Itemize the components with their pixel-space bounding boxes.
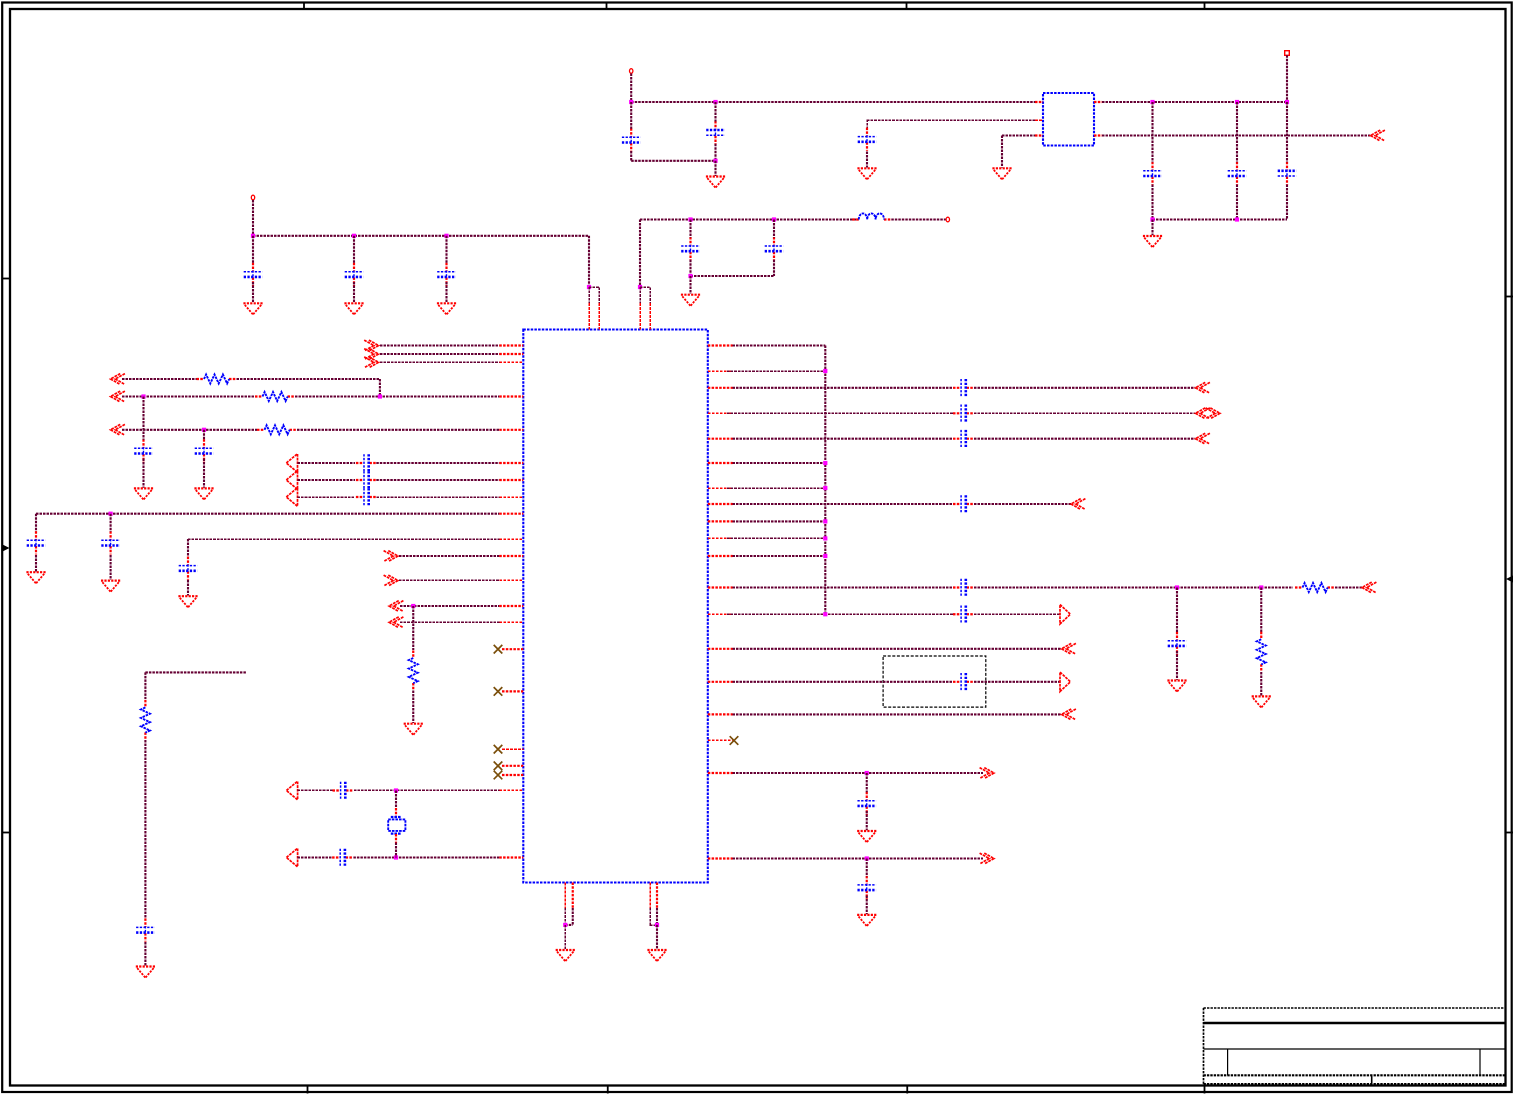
wire xyxy=(727,537,825,539)
pin U1 xyxy=(708,772,733,774)
wire xyxy=(1002,134,1035,136)
wire xyxy=(866,811,868,830)
ground xyxy=(26,571,45,573)
wire xyxy=(295,395,499,397)
wire xyxy=(689,276,691,294)
wire xyxy=(122,378,197,380)
ground xyxy=(556,949,575,951)
wire xyxy=(565,924,573,926)
wire xyxy=(1286,55,1288,102)
junction xyxy=(655,923,659,927)
wire xyxy=(974,613,1060,615)
wire xyxy=(35,555,37,572)
annotation box xyxy=(883,656,986,707)
wire xyxy=(866,896,868,915)
wire xyxy=(380,361,499,363)
no-connect xyxy=(494,762,503,771)
capacitor C31 xyxy=(866,876,868,885)
pin U1 xyxy=(708,503,733,505)
wire xyxy=(379,379,381,397)
junction xyxy=(109,512,113,516)
pin U1 xyxy=(598,303,600,329)
off-page connector xyxy=(1210,408,1220,419)
ground xyxy=(437,302,456,304)
wire xyxy=(866,120,868,130)
wire xyxy=(188,538,499,540)
ground xyxy=(344,302,363,304)
wire xyxy=(588,236,590,287)
capacitor C23 xyxy=(953,412,961,414)
wire xyxy=(297,429,499,431)
wire xyxy=(142,459,144,488)
wire xyxy=(187,580,189,596)
wire xyxy=(298,856,333,858)
junction xyxy=(444,234,448,238)
wire xyxy=(639,220,641,288)
pin U2.1 xyxy=(1035,101,1043,103)
wire xyxy=(400,605,499,607)
ground xyxy=(1252,695,1271,697)
pin U2.3 xyxy=(1035,134,1043,136)
capacitor C4 xyxy=(689,237,691,246)
junction xyxy=(823,369,827,373)
junction xyxy=(1285,100,1289,104)
wire xyxy=(399,555,499,557)
wire xyxy=(733,586,954,588)
pin U1 xyxy=(708,462,733,464)
wire xyxy=(727,487,825,489)
wire xyxy=(298,496,356,498)
junction xyxy=(352,234,356,238)
wire xyxy=(564,908,566,925)
wire xyxy=(144,672,146,699)
wire xyxy=(1001,136,1003,168)
wire xyxy=(380,344,499,346)
pin U1 xyxy=(499,605,523,607)
wire xyxy=(588,287,590,303)
off-page connector xyxy=(1196,408,1206,419)
junction xyxy=(823,519,827,523)
wire xyxy=(36,513,499,515)
off-page connector xyxy=(1371,130,1381,141)
wire xyxy=(733,555,826,557)
junction xyxy=(411,604,415,608)
wire xyxy=(395,843,397,858)
off-page connector xyxy=(286,454,297,473)
pin U1 xyxy=(499,462,523,464)
off-page connector xyxy=(1062,643,1072,654)
wire xyxy=(1153,218,1288,220)
capacitor C22 xyxy=(953,387,961,389)
pin U1 xyxy=(502,690,523,692)
pin U1 xyxy=(708,739,733,741)
wire xyxy=(727,370,825,372)
inductor L1 xyxy=(852,218,859,220)
pin U1 xyxy=(708,586,733,588)
off-page connector xyxy=(389,601,399,612)
pin U1 xyxy=(708,681,733,683)
wire xyxy=(733,520,826,522)
resistor R7 xyxy=(144,700,146,708)
ground xyxy=(404,723,423,725)
junction xyxy=(251,234,255,238)
off-page connector xyxy=(984,853,994,864)
wire xyxy=(733,681,954,683)
wire xyxy=(1102,101,1287,103)
IC U1 body xyxy=(523,330,708,883)
capacitor C29 xyxy=(953,681,961,683)
pin U1 xyxy=(499,361,523,363)
junction xyxy=(823,461,827,465)
wire xyxy=(187,539,189,557)
wire xyxy=(727,613,953,615)
power terminal P1 xyxy=(251,195,254,200)
pin U1 xyxy=(708,412,733,414)
pin U1 xyxy=(499,395,523,397)
junction xyxy=(688,217,692,221)
wire xyxy=(572,908,574,925)
power terminal P2 xyxy=(946,217,949,222)
off-page connector xyxy=(1196,382,1206,393)
wire xyxy=(564,925,566,949)
pin U1 xyxy=(499,513,523,515)
pin U1 xyxy=(708,520,733,522)
wire xyxy=(144,942,146,966)
pin U1 xyxy=(499,496,523,498)
wire xyxy=(733,387,954,389)
wire xyxy=(733,648,1062,650)
junction xyxy=(1175,585,1179,589)
ground xyxy=(243,302,262,304)
capacitor C26 xyxy=(953,586,961,588)
wire xyxy=(353,282,355,303)
wire xyxy=(1176,651,1178,680)
ground xyxy=(1167,679,1186,681)
wire xyxy=(974,387,1196,389)
junction xyxy=(823,536,827,540)
crystal Y1 xyxy=(391,816,402,818)
pin U1 xyxy=(502,648,523,650)
pin U1 xyxy=(708,537,733,539)
capacitor C6 xyxy=(630,128,632,137)
no-connect xyxy=(730,736,739,745)
wire xyxy=(144,740,146,919)
junction xyxy=(638,285,642,289)
capacitor C5 xyxy=(773,237,775,246)
pin U1 xyxy=(708,648,733,650)
off-page connector xyxy=(389,617,399,628)
off-page connector xyxy=(1060,672,1070,691)
junction xyxy=(1235,217,1239,221)
wire xyxy=(974,412,1196,414)
capacitor C27 xyxy=(1176,632,1178,641)
wire xyxy=(298,462,356,464)
IC U2 body xyxy=(1043,93,1094,146)
resistor R4 xyxy=(412,651,414,659)
pin U1 xyxy=(656,883,658,909)
ground xyxy=(194,487,213,489)
junction xyxy=(1150,217,1154,221)
off-page connector xyxy=(388,575,398,586)
pin U2.4 xyxy=(1094,101,1102,103)
wire xyxy=(400,621,499,623)
wire xyxy=(354,789,500,791)
ground xyxy=(681,294,700,296)
wire xyxy=(649,287,651,303)
off-page connector xyxy=(1071,499,1081,510)
wire xyxy=(974,438,1196,440)
border zone tick marks xyxy=(303,2,305,10)
capacitor C10 xyxy=(1236,162,1238,171)
wire xyxy=(203,459,205,488)
wire xyxy=(1102,134,1371,136)
wire xyxy=(598,287,600,303)
wire xyxy=(974,503,1071,505)
capacitor C1 xyxy=(252,263,254,272)
wire xyxy=(395,791,397,809)
ground xyxy=(1143,235,1162,237)
off-page connector xyxy=(369,340,379,351)
pin U1 xyxy=(708,857,733,859)
capacitor C25 xyxy=(953,503,961,505)
off-page connector xyxy=(286,848,297,867)
wire xyxy=(122,429,257,431)
junction xyxy=(1259,585,1263,589)
capacitor C19 xyxy=(187,557,189,566)
pin U1 xyxy=(708,613,733,615)
capacitor C16 xyxy=(356,496,364,498)
junction xyxy=(823,612,827,616)
wire xyxy=(35,514,37,532)
wire xyxy=(445,282,447,303)
junction xyxy=(202,428,206,432)
wire xyxy=(733,344,826,346)
wire xyxy=(412,691,414,724)
border fold arrow right xyxy=(1506,576,1513,583)
capacitor C17 xyxy=(35,531,37,540)
ground xyxy=(134,487,153,489)
wire xyxy=(376,462,499,464)
wire xyxy=(376,479,499,481)
junction xyxy=(394,788,398,792)
wire xyxy=(640,218,859,220)
capacitor C13 xyxy=(203,439,205,448)
capacitor C18 xyxy=(109,531,111,540)
pin U1 xyxy=(572,883,574,909)
wire xyxy=(1335,586,1362,588)
wire xyxy=(376,496,499,498)
capacitor C21 xyxy=(332,856,340,858)
off-page connector xyxy=(1362,582,1372,593)
ground xyxy=(101,579,120,581)
junction xyxy=(713,159,717,163)
wire xyxy=(640,286,650,288)
junction xyxy=(141,394,145,398)
pin U1 xyxy=(499,479,523,481)
no-connect xyxy=(494,771,503,780)
wire xyxy=(891,218,945,220)
pin U1 xyxy=(499,621,523,623)
off-page connector xyxy=(1062,709,1072,720)
ground xyxy=(647,949,666,951)
ground xyxy=(857,914,876,916)
wire xyxy=(867,119,1035,121)
power terminal P4 xyxy=(1285,51,1290,56)
pin U1 xyxy=(649,303,651,329)
wire xyxy=(650,924,657,926)
ground xyxy=(857,830,876,832)
pin U1 xyxy=(499,429,523,431)
capacitor C24 xyxy=(953,438,961,440)
wire xyxy=(252,282,254,303)
pin U1 xyxy=(708,387,733,389)
wire xyxy=(412,606,414,650)
pin U1 xyxy=(499,789,523,791)
pin U2.5 xyxy=(1094,134,1102,136)
wire xyxy=(733,462,826,464)
wire xyxy=(727,412,953,414)
pin U1 xyxy=(639,303,641,329)
capacitor C20 xyxy=(333,789,341,791)
off-page connector xyxy=(286,781,297,800)
junction xyxy=(823,486,827,490)
capacitor C2 xyxy=(353,263,355,272)
wire xyxy=(974,681,1060,683)
no-connect xyxy=(494,687,503,696)
off-page connector xyxy=(111,391,121,402)
net bus xyxy=(824,346,826,615)
wire xyxy=(656,925,658,949)
pin U1 xyxy=(502,765,523,767)
capacitor C30 xyxy=(866,792,868,801)
ground xyxy=(178,595,197,597)
capacitor C28 xyxy=(953,613,961,615)
pin U1 xyxy=(649,883,651,909)
pin U1 xyxy=(708,370,733,372)
pin U1 xyxy=(499,555,523,557)
pin U1 xyxy=(502,774,523,776)
off-page connector xyxy=(286,471,297,490)
wire xyxy=(589,286,599,288)
pin xyxy=(395,808,397,817)
no-connect xyxy=(494,645,503,654)
wire xyxy=(691,275,775,277)
wire xyxy=(733,438,954,440)
capacitor C14 xyxy=(356,462,364,464)
wire xyxy=(237,378,380,380)
pin U1 xyxy=(708,555,733,557)
off-page connector xyxy=(111,374,121,385)
wire xyxy=(1151,220,1153,236)
capacitor C15 xyxy=(356,479,364,481)
pin xyxy=(395,834,397,843)
pin U1 xyxy=(499,538,523,540)
junction xyxy=(587,285,591,289)
ground xyxy=(706,175,725,177)
capacitor C3 xyxy=(445,263,447,272)
wire xyxy=(1260,672,1262,696)
junction xyxy=(394,855,398,859)
capacitor C11 xyxy=(1286,162,1288,171)
resistor R5 xyxy=(1295,586,1303,588)
pin U1 xyxy=(708,713,733,715)
wire xyxy=(649,908,651,925)
capacitor C9 xyxy=(1151,162,1153,171)
off-page connector xyxy=(369,349,379,360)
junction xyxy=(865,771,869,775)
title block xyxy=(1203,1008,1205,1086)
wire xyxy=(399,579,499,581)
off-page connector xyxy=(388,551,398,562)
wire xyxy=(353,856,499,858)
wire xyxy=(639,287,641,303)
junction xyxy=(688,274,692,278)
junction xyxy=(1235,100,1239,104)
ground xyxy=(857,167,876,169)
junction xyxy=(378,394,382,398)
wire xyxy=(631,101,1035,103)
junction xyxy=(629,100,633,104)
pin U2.2 xyxy=(1035,119,1043,121)
pin U1 xyxy=(708,438,733,440)
junction xyxy=(772,217,776,221)
off-page connector xyxy=(984,768,994,779)
off-page connector xyxy=(286,488,297,507)
ground xyxy=(136,965,155,967)
pin U1 xyxy=(708,487,733,489)
capacitor C8 xyxy=(866,128,868,137)
wire xyxy=(1260,588,1262,634)
pin U1 xyxy=(708,344,733,346)
off-page connector xyxy=(111,424,121,435)
off-page connector xyxy=(369,357,379,368)
wire xyxy=(630,74,632,103)
resistor R3 xyxy=(257,429,265,431)
capacitor C32 xyxy=(144,918,146,927)
junction xyxy=(1150,100,1154,104)
wire xyxy=(714,161,716,176)
wire VDD rail xyxy=(253,235,589,237)
pin U1 xyxy=(564,883,566,909)
off-page connector xyxy=(1060,605,1070,624)
capacitor C12 xyxy=(142,439,144,448)
wire xyxy=(631,160,715,162)
pin U1 xyxy=(499,856,523,858)
ground xyxy=(992,167,1011,169)
pin U1 xyxy=(499,353,523,355)
capacitor C7 xyxy=(714,121,716,130)
junction xyxy=(865,856,869,860)
junction xyxy=(563,923,567,927)
wire xyxy=(380,353,499,355)
pin U1 xyxy=(588,303,590,329)
wire xyxy=(252,200,254,236)
wire xyxy=(656,908,658,925)
resistor R2 xyxy=(255,395,263,397)
wire xyxy=(298,789,333,791)
wire xyxy=(733,857,984,859)
border fold arrow left xyxy=(3,545,10,552)
resistor R1 xyxy=(197,378,205,380)
off-page connector xyxy=(1196,433,1206,444)
resistor R6 xyxy=(1260,632,1262,640)
wire xyxy=(122,395,255,397)
no-connect xyxy=(494,745,503,754)
wire xyxy=(298,479,356,481)
pin U1 xyxy=(499,344,523,346)
wire xyxy=(733,503,954,505)
junction xyxy=(823,554,827,558)
